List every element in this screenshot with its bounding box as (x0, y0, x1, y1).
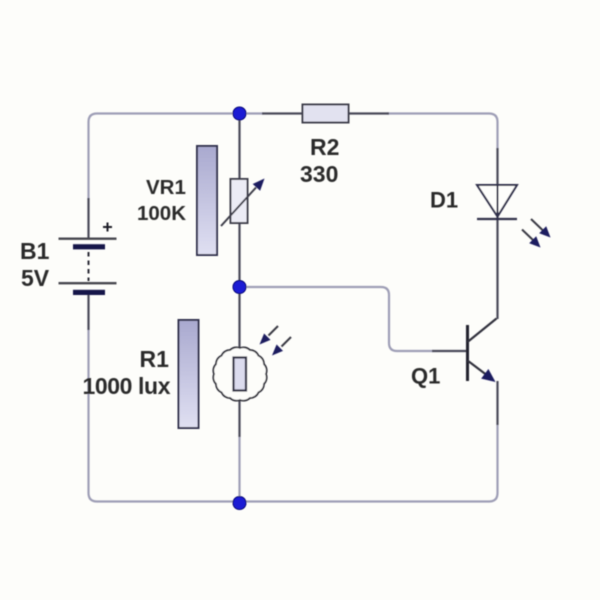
svg-text:5V: 5V (21, 265, 50, 291)
svg-text:R2: R2 (310, 134, 339, 160)
svg-text:1000 lux: 1000 lux (83, 373, 171, 399)
svg-text:Q1: Q1 (411, 364, 440, 389)
svg-text:D1: D1 (430, 188, 458, 213)
svg-text:R1: R1 (140, 346, 170, 372)
svg-text:100K: 100K (137, 202, 186, 225)
svg-text:VR1: VR1 (146, 176, 186, 199)
svg-text:330: 330 (300, 161, 338, 187)
svg-text:B1: B1 (20, 238, 50, 264)
